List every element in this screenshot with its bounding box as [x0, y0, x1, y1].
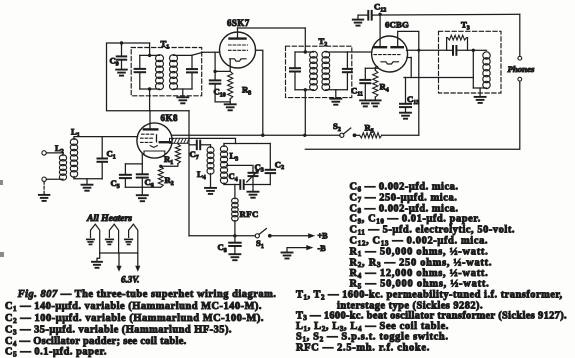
label S1: [256, 238, 264, 250]
wire T1 primary feed: [149, 43, 151, 55]
node 6CBG top: [378, 13, 381, 16]
heater lead arrow 1: [116, 253, 121, 272]
6CBG right bar: [392, 46, 403, 48]
label C13: [407, 94, 419, 106]
ground below R4: [370, 100, 381, 106]
6K8 hexode plate bar: [160, 141, 170, 143]
ground below L1: [82, 179, 93, 191]
label 6CBG: [385, 20, 409, 30]
antenna terminal bottom: [42, 177, 46, 181]
coil L3: [220, 144, 227, 185]
label C11: [351, 86, 363, 98]
wire vertical B+ feed: [188, 111, 190, 236]
caption line cap1: [5, 301, 262, 313]
T2 secondary coil: [322, 51, 330, 90]
svg-text:6SK7: 6SK7: [227, 18, 250, 28]
caption fig line: [17, 289, 277, 300]
T1 secondary coil: [170, 55, 178, 90]
caption line cap10: [350, 225, 516, 237]
caption line cap5: [5, 347, 107, 358]
resistor R1: [161, 143, 181, 166]
switch S2: [340, 128, 357, 137]
capacitor C7: [189, 141, 211, 150]
6SK7 cathode lead: [229, 60, 231, 72]
svg-text:Phones: Phones: [508, 64, 535, 74]
svg-text:RFC — 2.5-mh. r.f. choke.: RFC — 2.5-mh. r.f. choke.: [296, 343, 430, 354]
label C9: [110, 56, 119, 68]
wire C10 node to R3: [215, 70, 230, 72]
6CBG cathode lead left: [365, 67, 377, 69]
6CBG cathode lead right: [407, 58, 411, 78]
caption line cap11: [350, 236, 489, 248]
svg-text:+B: +B: [318, 232, 329, 241]
label 6.3V: [121, 275, 139, 285]
label C5: [111, 178, 120, 190]
ground below C11: [360, 100, 371, 106]
6K8 grid bar: [144, 124, 157, 130]
wire plate line down to T2: [304, 28, 306, 52]
T3 primary series capacitor: [447, 46, 474, 55]
T2 primary rails: [295, 52, 314, 90]
heater bus: [100, 252, 138, 254]
node T1 primary bottom: [148, 87, 151, 90]
node C8 junction: [233, 234, 236, 237]
caption line cap17: [337, 300, 483, 311]
ground below C9: [116, 70, 127, 76]
6K8 heater staple: [144, 151, 165, 155]
capacitor C6: [137, 164, 148, 187]
caption line cap9: [350, 214, 481, 226]
tube 6SK7 envelope: [220, 32, 256, 68]
capacitor C1: [98, 137, 108, 179]
ground osc tank: [248, 185, 259, 198]
ground below C6: [137, 187, 148, 201]
label T1: [161, 39, 170, 51]
label R3: [242, 85, 251, 97]
capacitor C5: [120, 164, 131, 187]
label Phones: [508, 64, 535, 74]
wire 6CBG plate to T3: [407, 49, 447, 51]
6K8 triode plate: [156, 135, 158, 142]
label -B: [318, 244, 327, 253]
ground at C12: [353, 15, 363, 26]
label C10: [214, 87, 226, 99]
label R2: [165, 175, 174, 187]
label 6SK7: [227, 18, 250, 28]
svg-text:C3​ — 35-μμfd. variable (Hamma: C3​ — 35-μμfd. variable (Hammarlund HF-3…: [5, 325, 232, 337]
wire to +B: [270, 233, 315, 238]
T1 secondary ground stem: [182, 89, 184, 97]
node osc bus junction: [303, 134, 306, 137]
oscillator tank top rail: [224, 143, 270, 145]
label C8: [218, 242, 227, 254]
resistor R2: [158, 166, 163, 187]
wire L1 top bus: [74, 136, 138, 138]
wire dashed to ground L2: [43, 182, 45, 195]
T3 primary coil loop: [447, 35, 468, 50]
svg-text:Fig. 807 — The three-tube supe: Fig. 807 — The three-tube superhet wirin…: [17, 289, 277, 300]
ground below C8: [229, 254, 240, 260]
svg-text:C1​ — 140-μμfd. variable (Hamm: C1​ — 140-μμfd. variable (Hammarlund MC-…: [5, 301, 262, 313]
ground below L4: [205, 188, 216, 194]
wire bus junction to S2: [305, 134, 340, 136]
tube 6K8 envelope: [137, 123, 172, 158]
phones terminal top: [518, 56, 522, 60]
coil L1: [70, 137, 77, 179]
T1 secondary capacitor: [187, 69, 197, 72]
wire C5/C6 bottom rail: [125, 186, 160, 188]
capacitor C2: [266, 144, 276, 185]
capacitor C10: [210, 71, 221, 102]
scan artifact left 2: [0, 252, 4, 257]
capacitor C13: [400, 78, 411, 113]
svg-text:All Heaters: All Heaters: [86, 213, 132, 224]
label C4: [229, 171, 238, 183]
wire C12 to phones: [372, 14, 520, 56]
oscillator tank bottom rail: [224, 184, 270, 186]
resistor R5: [355, 133, 419, 138]
svg-text:6.3V.: 6.3V.: [121, 275, 139, 285]
T3 secondary coil: [483, 52, 490, 89]
heater lead arrow 2: [135, 253, 140, 272]
heater symbol 1: [87, 224, 100, 253]
caption line cap14: [350, 268, 489, 280]
wire C12 left: [358, 14, 368, 16]
wire 6CBG cathode to T3: [404, 77, 473, 79]
6SK7 top cap lead: [237, 28, 239, 32]
6CBG cathode: [381, 62, 399, 64]
6CBG grid dashes: [374, 54, 400, 56]
wire phones bottom to lower bus: [305, 82, 520, 150]
label RFC: [240, 209, 259, 219]
6K8 shielded oscillator lead: [170, 138, 190, 143]
node plate/T3: [417, 49, 420, 52]
T2 primary coil: [310, 51, 318, 90]
wire 6K8 to osc bus: [172, 134, 305, 136]
wire L2 bottom: [46, 178, 63, 180]
caption line cap19: [296, 321, 449, 333]
capacitor C4: [240, 180, 243, 189]
T2 secondary capacitor: [343, 69, 352, 72]
wire B+ bus: [189, 235, 255, 237]
label C7: [190, 149, 199, 161]
caption line cap7: [350, 192, 458, 204]
label T2: [319, 36, 328, 48]
svg-text:C2​ — 100-μμfd. variable (Hamm: C2​ — 100-μμfd. variable (Hammarlund MC-…: [5, 313, 264, 325]
ground below R3: [225, 102, 236, 110]
T1 primary coil: [156, 55, 164, 90]
ground below L2: [39, 195, 50, 201]
6CBG left bar: [375, 46, 387, 48]
switch S1: [255, 229, 272, 238]
capacitor C3 variable: [247, 169, 260, 185]
caption line cap18: [296, 310, 567, 322]
caption line cap20: [296, 332, 449, 344]
wire T1 secondary to 6SK7 grid: [192, 52, 220, 55]
caption line cap16: [296, 290, 563, 302]
svg-text:-B: -B: [318, 244, 327, 253]
caption line cap12: [350, 246, 489, 258]
T1 primary tank rails: [140, 55, 160, 89]
svg-text:6CBG: 6CBG: [385, 20, 409, 30]
capacitor C11: [360, 68, 370, 100]
T2 secondary ground: [330, 90, 341, 105]
resistor R4: [373, 67, 378, 100]
wire L1/C1 bottom rail: [74, 178, 102, 180]
wire C10 bottom to R3 bottom: [215, 101, 230, 103]
node C9 tap: [120, 41, 123, 44]
caption line cap15: [350, 279, 490, 291]
label C3: [255, 162, 264, 174]
label L4: [197, 169, 206, 181]
6CBG plate lead: [398, 31, 419, 135]
label S2: [333, 121, 341, 133]
6K8 cathode lead: [141, 154, 143, 164]
antenna terminal top: [42, 151, 46, 155]
tube 6CBG envelope: [372, 36, 408, 72]
T3 ground: [475, 88, 486, 103]
capacitor C8: [229, 236, 241, 254]
caption line cap8: [350, 203, 459, 215]
ground T1 secondary: [177, 97, 188, 103]
capacitor C12: [368, 11, 371, 20]
ground below C13: [400, 113, 411, 119]
transformer T3 shield box: [439, 31, 502, 93]
label L2: [55, 143, 64, 155]
node screen bus: [261, 134, 264, 137]
coil L4: [207, 145, 214, 188]
caption line cap2: [5, 313, 264, 325]
svg-text:C5​ — 0.1-μfd. paper.: C5​ — 0.1-μfd. paper.: [5, 347, 107, 358]
phones terminal bottom: [518, 77, 522, 81]
node T2 primary top: [304, 50, 307, 53]
scan artifact left 1: [0, 180, 3, 185]
wire T1 to 6K8 grid cap: [149, 89, 151, 124]
label R1: [164, 154, 173, 166]
caption line cap6: [350, 182, 459, 194]
heater ground: [92, 253, 102, 268]
wire to -B: [287, 245, 313, 252]
label C2: [275, 159, 284, 171]
T2 primary capacitor: [290, 68, 300, 71]
6SK7 cathode: [230, 59, 247, 61]
wire L2 top: [46, 153, 63, 156]
transformer T2 shield box: [286, 46, 352, 97]
wire bar to tank top: [189, 138, 236, 143]
node R2 top: [159, 165, 162, 168]
capacitor C9: [117, 43, 126, 69]
wire C5/C6 top rail: [125, 163, 142, 165]
label T3: [461, 20, 470, 32]
wire 6SK7 plate to top: [238, 27, 306, 29]
caption line cap21: [296, 343, 430, 354]
label C1: [107, 149, 116, 161]
caption line cap13: [350, 257, 493, 269]
wire grid line to C10 node: [214, 52, 216, 71]
node C10/R3: [213, 70, 216, 73]
heater symbol 3: [125, 224, 138, 253]
resistor R3: [228, 71, 233, 102]
6SK7 grid dashes: [229, 45, 248, 50]
label R5: [365, 123, 374, 135]
6K8 cathode: [150, 146, 157, 148]
wire L3 tap to C3: [227, 165, 254, 172]
node T3 mid: [472, 49, 475, 52]
ground at -B: [282, 253, 293, 259]
label All Heaters: [86, 213, 132, 224]
svg-text:RFC: RFC: [240, 209, 259, 219]
label R4: [380, 82, 389, 94]
caption line cap4: [5, 336, 187, 348]
T3 secondary rails: [473, 50, 486, 88]
heater symbol 2: [106, 224, 119, 253]
label C12: [374, 2, 386, 14]
choke RFC: [232, 185, 239, 236]
svg-text:6K8: 6K8: [161, 113, 179, 123]
6CBG grid cap lead: [379, 14, 381, 47]
node T2 primary bottom: [304, 88, 307, 91]
wire T2 to 6CBG grid: [347, 51, 371, 53]
6K8 grid dashes: [141, 134, 154, 142]
T1 secondary rails: [174, 55, 193, 89]
label L3: [230, 151, 239, 163]
node T1 primary top: [148, 54, 151, 57]
transformer T1 shield box: [131, 48, 202, 96]
wire top-left bus to T1: [107, 43, 190, 111]
label C6: [145, 177, 154, 189]
coil L2: [59, 155, 66, 180]
label 6K8: [161, 113, 179, 123]
label +B: [318, 232, 329, 241]
T1 primary capacitor: [135, 69, 146, 72]
6SK7 control grid bar: [230, 32, 246, 39]
label L1: [71, 127, 80, 139]
T2 secondary rails: [326, 52, 348, 90]
wire 6SK7 screen right: [256, 50, 263, 135]
wire T2 primary bottom down: [304, 90, 306, 136]
caption line cap3: [5, 325, 232, 337]
